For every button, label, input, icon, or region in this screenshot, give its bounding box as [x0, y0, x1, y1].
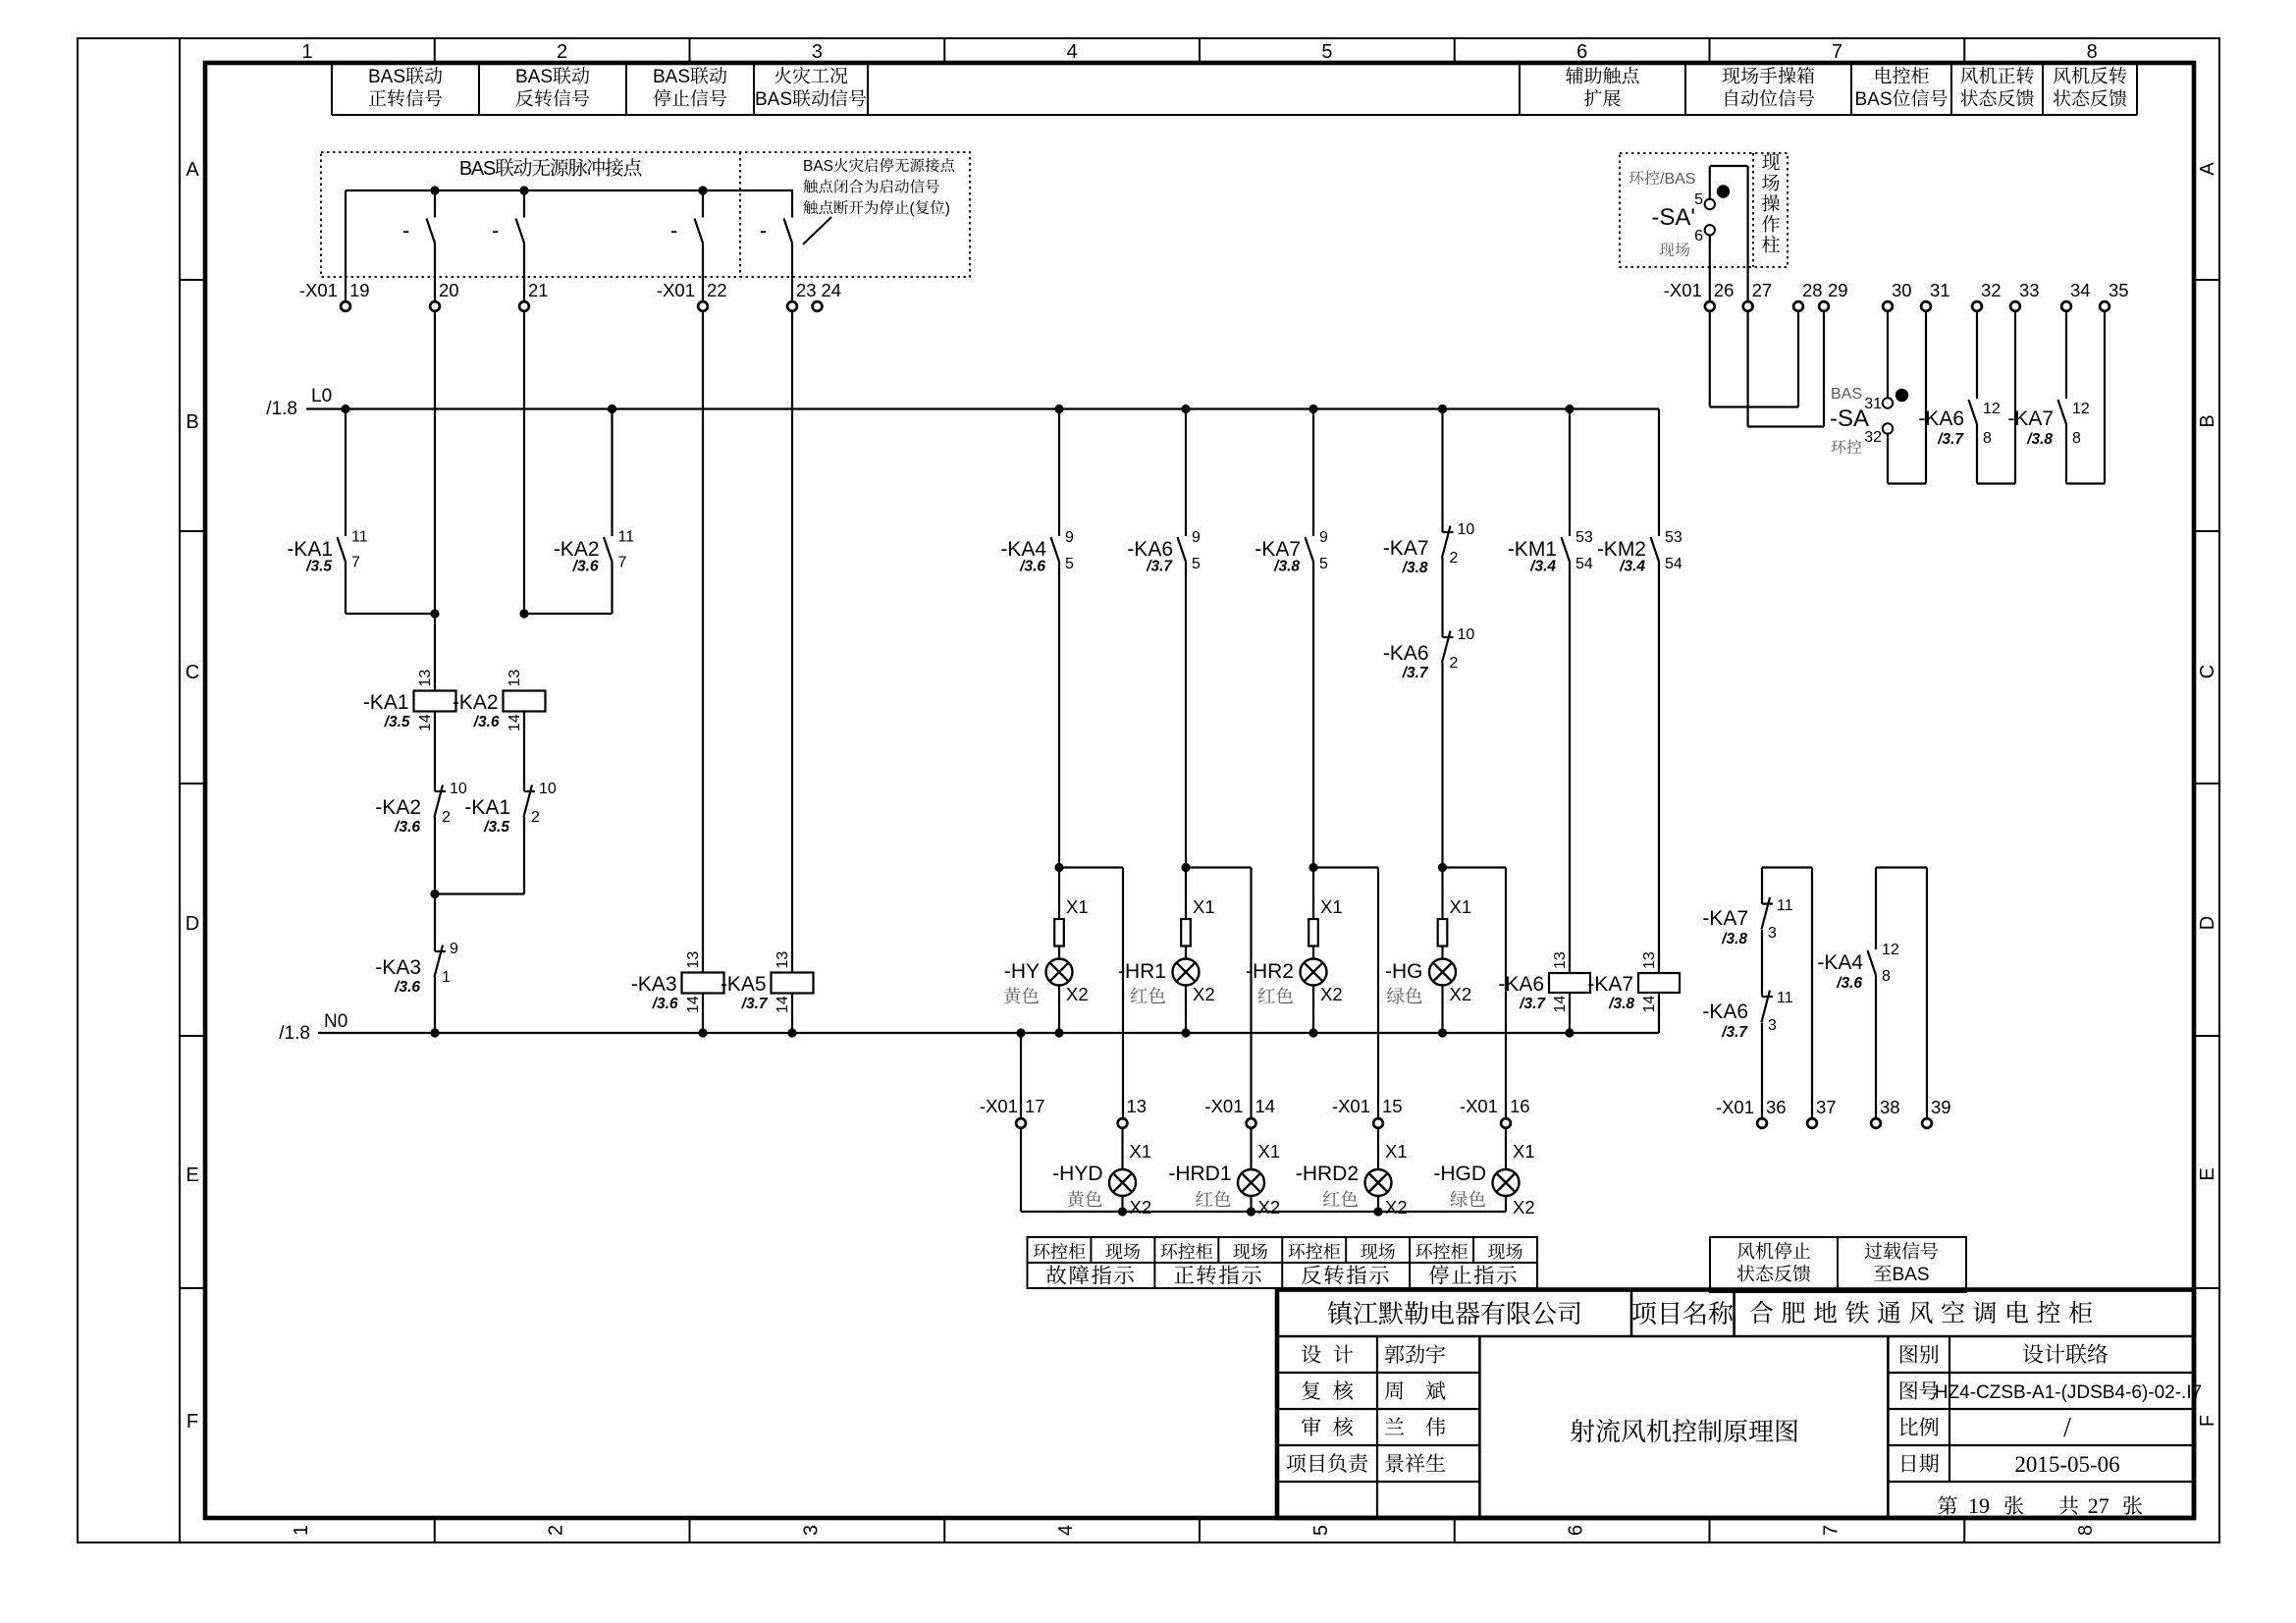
svg-text:22: 22: [707, 280, 727, 300]
contact -KA7 10/2 (NC): [1443, 531, 1454, 533]
signal label box 7 right edge: [1950, 64, 1952, 115]
svg-text:13: 13: [1552, 951, 1569, 969]
indication cell 4: [1288, 1243, 1305, 1259]
wire L0 to KA7 NC: [1441, 409, 1443, 533]
lamp -HGD X1 lead: [1505, 1128, 1507, 1169]
node lamp top -HG: [1438, 863, 1447, 872]
svg-text:X1: X1: [1513, 1141, 1535, 1162]
svg-text:8: 8: [2075, 1525, 2097, 1536]
svg-text:-KA3: -KA3: [631, 973, 677, 996]
svg-text:-KA7: -KA7: [1383, 537, 1429, 560]
svg-text:X1: X1: [1258, 1141, 1281, 1162]
wire SA' bridge to term27: [1746, 166, 1748, 301]
coil -KA6 /3.7: [1549, 973, 1590, 993]
svg-text:29: 29: [1828, 280, 1848, 300]
row divider left 1: [180, 279, 205, 281]
wire -KA7 return up: [2104, 312, 2106, 484]
row divider right 3: [2194, 783, 2219, 784]
svg-text:8: 8: [2072, 430, 2081, 447]
node 443/623: [430, 609, 439, 618]
svg-text:53: 53: [1665, 529, 1682, 546]
svg-text:/3.6: /3.6: [473, 714, 500, 730]
row divider right 4: [2194, 1035, 2219, 1037]
node L0 x1079: [1054, 405, 1063, 413]
svg-text:12: 12: [1882, 942, 1899, 958]
wire KA4 to term38: [1875, 975, 1877, 1118]
svg-text:36: 36: [1766, 1097, 1787, 1117]
wire BAS box top rail: [346, 189, 793, 191]
wire L0 to KM1 contact: [1569, 409, 1571, 537]
svg-text:27: 27: [1752, 280, 1773, 300]
wire -KA7 contact to lamp node: [1312, 562, 1314, 868]
svg-text:E: E: [186, 1164, 198, 1186]
svg-text:13: 13: [1641, 951, 1658, 969]
wire 37 down: [1811, 868, 1813, 1119]
indication table col 1: [1090, 1237, 1092, 1263]
wire KA6 coil to N0: [1569, 993, 1571, 1033]
svg-text:20: 20: [439, 280, 459, 300]
node lamp top -HY: [1054, 863, 1063, 872]
svg-text:4: 4: [1055, 1525, 1077, 1536]
wire 36 branch upper: [1761, 868, 1763, 904]
contact -KA3 9/1 (NC): [435, 950, 446, 952]
coil -KA5 /3.7: [772, 973, 814, 994]
svg-text:5: 5: [1192, 556, 1201, 572]
svg-text:-KA1: -KA1: [363, 691, 409, 714]
svg-text:/3.7: /3.7: [1402, 665, 1429, 681]
node N0 x1079: [1054, 1028, 1063, 1037]
node N0 x1338: [1308, 1028, 1317, 1037]
svg-text:BAS: BAS: [1855, 89, 1893, 110]
svg-text:X2: X2: [1258, 1197, 1281, 1217]
wire bypass top -HR2: [1313, 866, 1378, 868]
indication table col 3: [1217, 1237, 1219, 1263]
row divider left 2: [180, 530, 205, 532]
lamp -HR2 X1 lead: [1312, 868, 1314, 920]
svg-text:5: 5: [1065, 556, 1074, 572]
wire bridge 30-31: [1888, 482, 1926, 484]
wire L0 to -KA7 contact: [1312, 409, 1314, 537]
title block v left labels: [1376, 1336, 1378, 1518]
title project value: [1750, 1301, 1773, 1324]
svg-text:11: 11: [351, 529, 368, 546]
svg-text:5: 5: [1321, 41, 1332, 63]
column divider top 7: [1963, 38, 1965, 63]
box 风机停止/过载信号: [1710, 1237, 1966, 1292]
svg-text:53: 53: [1575, 529, 1593, 546]
wire N0 bus: [318, 1032, 1659, 1034]
svg-text:14: 14: [417, 714, 434, 731]
svg-text:1: 1: [442, 969, 451, 986]
svg-text:-HY: -HY: [1004, 960, 1040, 983]
title drawing name: [1571, 1419, 1594, 1442]
svg-text:13: 13: [685, 951, 702, 969]
wire between 11/3 contacts: [1761, 930, 1763, 997]
coil -KA2 /3.6: [504, 691, 546, 712]
indication table frame: [1028, 1237, 1538, 1288]
lamp -HRD2 symbol: [1365, 1169, 1392, 1196]
svg-text:/3.5: /3.5: [483, 819, 509, 836]
svg-text:11: 11: [1777, 897, 1793, 914]
row divider right 2: [2194, 530, 2219, 532]
signal label box 2 left edge: [478, 64, 480, 115]
svg-text:/3.6: /3.6: [1019, 559, 1045, 575]
lamp -HRD1 X2 lead: [1250, 1196, 1252, 1212]
wire 23 to KA5 coil: [791, 312, 793, 973]
svg-text:3: 3: [1768, 1017, 1777, 1034]
svg-text:-KA5: -KA5: [721, 973, 767, 996]
lamp -HRD2 X1 lead: [1377, 1128, 1379, 1169]
svg-text:/3.7: /3.7: [1146, 559, 1173, 575]
text 环控 (SA): [1832, 440, 1846, 454]
lamp -HY X2 lead: [1058, 986, 1060, 1034]
node rail-22: [698, 186, 707, 194]
svg-text:-HRD2: -HRD2: [1296, 1163, 1359, 1185]
svg-text:10: 10: [539, 781, 557, 797]
wire 30 down: [1887, 312, 1889, 398]
svg-text:/BAS: /BAS: [1660, 171, 1695, 188]
title block h right 1509: [1888, 1481, 2194, 1483]
contact -KA6 12/8 blade: [1969, 400, 1978, 424]
wire bridge -KA7: [2066, 482, 2105, 484]
wire SA to bridge: [1887, 434, 1889, 484]
svg-text:-X01: -X01: [1716, 1097, 1754, 1117]
svg-text:/3.7: /3.7: [741, 996, 769, 1012]
wire node to KA3 contact: [434, 894, 436, 952]
lamp -HYD X2 lead: [1121, 1196, 1123, 1212]
svg-text:/3.5: /3.5: [384, 714, 410, 730]
indication table row divider: [1028, 1262, 1538, 1264]
svg-text:D: D: [186, 913, 199, 935]
node rail-21: [519, 186, 528, 194]
wire bridge 38-39 top: [1876, 866, 1927, 868]
contact BAS pulse (wire 22) blade: [695, 219, 704, 243]
svg-text:4: 4: [1067, 41, 1078, 63]
wire KM2 contact to KA7 coil: [1658, 562, 1660, 973]
title block h right 1472: [1888, 1444, 2194, 1446]
svg-text:/3.4: /3.4: [1529, 559, 1556, 575]
svg-text:8: 8: [1882, 968, 1891, 985]
svg-text:-X01: -X01: [299, 280, 338, 300]
svg-text:-HGD: -HGD: [1433, 1163, 1486, 1185]
signal label box 8 right edge: [2042, 64, 2044, 115]
svg-text:-: -: [760, 218, 767, 243]
title block row1 divider: [1277, 1335, 2194, 1338]
svg-text:2015-05-06: 2015-05-06: [2014, 1452, 2119, 1477]
wire below NC KA1: [523, 817, 525, 894]
indication table col 5: [1345, 1237, 1347, 1263]
signal label box 4 right edge: [867, 64, 869, 115]
title block v 项目名称 left: [1630, 1290, 1633, 1337]
lamp -HR2 X2 lead: [1312, 986, 1314, 1034]
wire bridge 27-29: [1748, 425, 1824, 427]
node L0 x623.5: [608, 405, 616, 413]
svg-text:-X01: -X01: [1204, 1096, 1243, 1116]
svg-text:-HG: -HG: [1385, 960, 1423, 983]
signal label box 3 left edge: [625, 64, 627, 115]
title row 复 核: [1302, 1380, 1320, 1399]
contact -KA1 11/7 top lead: [345, 409, 347, 537]
indication row2 2: [1302, 1266, 1321, 1285]
signal label box 8 left edge: [1950, 64, 1952, 115]
svg-text:5: 5: [1319, 556, 1328, 572]
svg-text:X1: X1: [1193, 896, 1215, 917]
svg-text:/3.8: /3.8: [2026, 431, 2053, 448]
row divider left 5: [180, 1287, 205, 1289]
indication cell 5: [1361, 1243, 1377, 1259]
text 环控/BAS: [1629, 171, 1644, 185]
svg-text:/3.6: /3.6: [572, 559, 599, 575]
contact BAS pulse (wire 21) blade: [516, 219, 525, 243]
svg-text:/3.7: /3.7: [1721, 1024, 1748, 1041]
text 现场操作柱: [1762, 154, 1780, 171]
svg-text:28: 28: [1802, 280, 1823, 300]
lamp -HRD1 X1 lead: [1250, 1128, 1252, 1169]
svg-text:2: 2: [1450, 550, 1459, 567]
wire 38 branch upper: [1875, 868, 1877, 950]
lamp -HYD X1 lead: [1121, 1128, 1123, 1169]
signal label box 5 text: [1566, 67, 1583, 83]
title block h left 1398: [1277, 1372, 1479, 1374]
contact BAS pulse (wire 20) bottom lead: [434, 243, 436, 301]
wire 21 to KA2 coil: [523, 312, 525, 614]
switch -SA contact 31: [1883, 398, 1893, 407]
svg-text:5: 5: [1310, 1525, 1332, 1536]
svg-text:39: 39: [1931, 1097, 1951, 1117]
svg-text:X2: X2: [1385, 1197, 1408, 1217]
svg-text:C: C: [186, 662, 199, 683]
svg-text:/3.8: /3.8: [1608, 996, 1634, 1012]
svg-text:BAS: BAS: [1893, 1265, 1930, 1285]
signal label box 4 left edge: [753, 64, 755, 115]
switch -SA' contact 6: [1705, 225, 1715, 235]
svg-text:/1.8: /1.8: [266, 399, 297, 419]
svg-text:7: 7: [1832, 41, 1842, 63]
svg-text:-X01: -X01: [1460, 1096, 1498, 1116]
svg-text:BAS: BAS: [653, 67, 690, 87]
wire 27 down: [1746, 312, 1748, 427]
svg-text:-KA2: -KA2: [453, 691, 499, 714]
contact -KA2 11/7 bottom lead: [611, 562, 613, 614]
signal label box 3 right edge: [753, 64, 755, 115]
contact BAS fire top lead: [791, 190, 793, 218]
text 现场 (SA'): [1659, 243, 1674, 256]
node 534/623: [519, 609, 528, 618]
signal label box 5 left edge: [1519, 64, 1521, 115]
wire KA3 coil to N0: [702, 994, 704, 1034]
column divider bottom 6: [1709, 1518, 1711, 1542]
contact BAS pulse (wire 20) top lead: [434, 190, 436, 218]
BAS dotted box: [321, 152, 970, 277]
row divider left 4: [180, 1035, 205, 1037]
contact -KA6 10/2 (NC): [1443, 636, 1454, 638]
title company name: [1328, 1301, 1352, 1325]
svg-text:N0: N0: [324, 1011, 347, 1032]
indication row2 1: [1174, 1266, 1194, 1283]
contact -KM2 53/54 blade: [1651, 537, 1660, 562]
signal label box 7 left edge: [1850, 64, 1852, 115]
node L0 x352: [341, 405, 349, 413]
svg-text:/1.8: /1.8: [279, 1023, 310, 1044]
svg-text:13: 13: [507, 670, 523, 687]
node N0 x1208: [1181, 1028, 1190, 1037]
svg-text:-KA6: -KA6: [1918, 407, 1964, 430]
wire -KA7 to bridge: [2065, 424, 2067, 484]
wire node to KA1 coil: [434, 614, 436, 691]
svg-text:27: 27: [2088, 1493, 2109, 1518]
contact -KA1 10/2 (NC): [524, 790, 535, 792]
svg-text:-X01: -X01: [1664, 280, 1702, 300]
node rail-20: [430, 186, 439, 194]
lamp -HR2 ballast: [1308, 919, 1318, 947]
node lamp top -HR2: [1308, 863, 1317, 872]
signal label box 4 text: [774, 67, 791, 83]
svg-text:2: 2: [1450, 655, 1459, 672]
svg-text:24: 24: [822, 280, 842, 300]
column divider bottom 5: [1454, 1518, 1456, 1542]
wire L0 corner to KM2: [1658, 409, 1660, 537]
signal label box 1 right edge: [478, 64, 480, 115]
svg-text:D: D: [2197, 916, 2218, 930]
svg-text:15: 15: [1382, 1096, 1403, 1116]
node N0 x807: [787, 1028, 796, 1037]
node L0 x1599: [1565, 405, 1574, 413]
wire L0 to -KA4 contact: [1058, 409, 1060, 537]
svg-text:X1: X1: [1130, 1141, 1152, 1162]
node 443/910: [430, 890, 439, 898]
signal label box 7 text: [1876, 67, 1892, 83]
lamp -HRD2 X2 lead: [1377, 1196, 1379, 1212]
svg-text:30: 30: [1892, 280, 1912, 300]
svg-text:32: 32: [1864, 429, 1882, 446]
switch -SA' contact 5: [1705, 199, 1715, 209]
svg-text:-SA': -SA': [1651, 204, 1695, 231]
contact BAS fire actuator slash: [803, 217, 831, 244]
svg-text:HZ4-CZSB-A1-(JDSB4-6)-02-.I7: HZ4-CZSB-A1-(JDSB4-6)-02-.I7: [1935, 1382, 2202, 1403]
svg-text:14: 14: [774, 996, 791, 1013]
svg-text:-KA1: -KA1: [464, 796, 510, 819]
svg-text:BAS: BAS: [459, 158, 496, 180]
svg-text:B: B: [186, 411, 198, 433]
svg-text:14: 14: [507, 714, 523, 731]
column divider top 5: [1454, 38, 1456, 63]
svg-text:13: 13: [417, 670, 434, 687]
svg-text:1: 1: [301, 41, 312, 63]
contact -KA2 10/2 (NC): [435, 790, 446, 792]
svg-text:-SA: -SA: [1830, 406, 1869, 432]
node N0 x716: [698, 1028, 707, 1037]
contact -KA1 11/7 bottom lead: [345, 562, 347, 614]
svg-text:8: 8: [1983, 430, 1992, 447]
svg-text:/3.8: /3.8: [1273, 559, 1300, 575]
svg-text:-: -: [492, 218, 499, 243]
svg-text:A: A: [186, 159, 199, 181]
wire L0 bus: [306, 407, 1659, 409]
wire -KA6 to bridge: [1976, 424, 1978, 484]
indication table col 6: [1409, 1237, 1411, 1288]
column divider top 1: [434, 38, 436, 63]
border frame left band line: [179, 38, 181, 1542]
svg-text:2: 2: [557, 41, 567, 63]
svg-text:14: 14: [1552, 996, 1569, 1013]
lamp -HR2 symbol: [1301, 959, 1327, 986]
svg-text:(: (: [910, 200, 916, 217]
svg-text:21: 21: [528, 280, 549, 300]
wire 26 down: [1709, 312, 1711, 407]
coil -KA3 /3.6: [682, 973, 724, 994]
svg-text:X1: X1: [1066, 896, 1089, 917]
lamp -HGD X2 lead: [1505, 1196, 1507, 1212]
contact BAS pulse (wire 22) bottom lead: [702, 243, 704, 301]
contact BAS pulse (wire 20) blade: [427, 219, 436, 243]
title block h left 1472: [1277, 1444, 1479, 1446]
indication cell 0: [1034, 1243, 1050, 1259]
svg-text:-HYD: -HYD: [1052, 1163, 1102, 1185]
lamp -HGD symbol: [1493, 1169, 1520, 1196]
svg-text:-KA6: -KA6: [1702, 1001, 1748, 1023]
title block v 项目名称 right: [1733, 1290, 1735, 1337]
svg-text:5: 5: [1694, 191, 1703, 208]
svg-text:/3.8: /3.8: [1721, 931, 1747, 947]
wire KA2 branch to node: [524, 613, 613, 615]
contact -KA6 9/5 blade: [1178, 537, 1187, 562]
svg-text:11: 11: [618, 529, 635, 546]
svg-text:26: 26: [1714, 280, 1735, 300]
wire bypass -HYD down: [1122, 868, 1124, 1119]
svg-text:31: 31: [1930, 280, 1950, 300]
wire 17 from N0: [1020, 1033, 1022, 1118]
svg-text:F: F: [187, 1411, 198, 1433]
svg-text:19: 19: [1968, 1493, 1990, 1518]
svg-text:/: /: [2063, 1413, 2071, 1443]
svg-text:7: 7: [618, 555, 627, 571]
column divider top 4: [1199, 38, 1201, 63]
lamp -HY ballast: [1054, 919, 1064, 947]
svg-text:-: -: [402, 218, 409, 243]
wire -KA6 return up: [2014, 312, 2016, 484]
svg-text:16: 16: [1510, 1096, 1530, 1116]
wire 31 down: [1925, 312, 1927, 484]
title sheet count: [1938, 1495, 1956, 1514]
svg-text:-KA4: -KA4: [1817, 951, 1863, 974]
title block v right values: [1949, 1336, 1950, 1482]
svg-text:BAS: BAS: [515, 67, 553, 87]
wire KA7 coil to N0 end: [1658, 993, 1660, 1033]
wire KA2 coil to NC: [523, 712, 525, 792]
wire below NC KA2: [434, 817, 436, 894]
lamp -HR1 lead2: [1185, 947, 1187, 959]
svg-text:-KA7: -KA7: [1587, 973, 1633, 996]
wire KA6 NC to lamp node: [1441, 663, 1443, 868]
svg-text:6: 6: [1566, 1525, 1587, 1536]
indication cell 2: [1161, 1243, 1178, 1259]
contact BAS pulse (wire 21) bottom lead: [523, 243, 525, 301]
svg-text:12: 12: [1983, 401, 2001, 417]
node N0 x1040: [1016, 1028, 1025, 1037]
contact -KA7 11/3 (NC): [1762, 902, 1773, 904]
svg-text:3: 3: [812, 41, 823, 63]
svg-text:33: 33: [2019, 280, 2040, 300]
svg-text:3: 3: [800, 1525, 822, 1536]
svg-text:A: A: [2197, 162, 2218, 176]
indication row2 3: [1429, 1265, 1449, 1284]
node lamp top -HR1: [1181, 863, 1190, 872]
indication table col 2: [1153, 1237, 1155, 1288]
lamp -HG symbol: [1429, 959, 1456, 986]
svg-text:F: F: [2197, 1415, 2218, 1427]
wire bypass -HRD2 down: [1377, 868, 1379, 1119]
indication cell 7: [1488, 1243, 1505, 1259]
